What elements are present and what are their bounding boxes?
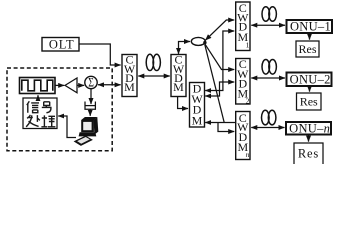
svg-text:ONU–n: ONU–n: [289, 121, 330, 135]
label ONU-1: [290, 20, 331, 34]
ONU-1 box: [287, 20, 333, 33]
wire CWDM to CWDM feeder (bidirectional): [138, 75, 169, 77]
wire ONU-n to Res: [308, 135, 310, 141]
label CWDM mux: [124, 53, 136, 95]
wire CWDM2 to ONU-2 (bidirectional): [251, 77, 285, 79]
svg-text:M: M: [192, 113, 203, 127]
CWDM mux box (left): [122, 55, 137, 97]
CWDM demux box (remote node): [171, 55, 186, 97]
wire splitter to CWDMn (upper): [205, 45, 224, 123]
label CWDM2: [237, 57, 249, 105]
wire detector to computer: [89, 109, 91, 116]
CWDM1 box (right top): [236, 2, 250, 51]
svg-text:Σ: Σ: [88, 77, 94, 90]
modulator triangle: [65, 78, 77, 93]
wire signal-processing to pulse generator: [37, 95, 39, 98]
wire circulator to CWDM (bidirectional): [98, 84, 121, 86]
svg-text:M: M: [124, 80, 135, 94]
label Res 1: [299, 42, 317, 56]
circulator: [85, 76, 97, 90]
svg-text:Res: Res: [300, 95, 318, 109]
label Res 3: [298, 146, 319, 160]
drop fiber coil 3: [262, 110, 276, 125]
wire circulator down to detector: [90, 89, 92, 104]
Res box 3: [294, 143, 323, 165]
splitter ellipse: [191, 37, 206, 45]
label CWDM demux: [173, 53, 185, 95]
svg-text:Res: Res: [299, 42, 317, 56]
svg-text:ONU–2: ONU–2: [290, 72, 331, 86]
wire CWDM1 to ONU-1 (bidirectional): [251, 24, 285, 26]
DWDM box: [190, 83, 205, 128]
label OLT: [49, 37, 75, 51]
CWDMn box (right bottom): [236, 112, 250, 160]
wire splitter to CWDM1 (upper): [205, 20, 234, 40]
label 信号 (signal) hand-drawn strokes: [27, 101, 52, 113]
label CWDM1: [237, 1, 249, 50]
label CWDMn: [237, 111, 249, 159]
wire pulse generator to modulator: [55, 84, 64, 86]
wire OLT to CWDM: [79, 44, 121, 65]
wire DWDM to CWDM1 (lower): [205, 31, 234, 91]
wire computer to signal processing: [58, 116, 76, 138]
label ONU-2: [290, 72, 331, 86]
square wave: [22, 80, 53, 91]
svg-text:ONU–1: ONU–1: [290, 20, 331, 34]
wire CWDM demux to DWDM: [178, 97, 188, 109]
wire ONU-1 to Res: [309, 34, 311, 40]
svg-text:OLT: OLT: [49, 37, 75, 51]
wire CWDMn to ONU-n (bidirectional): [251, 127, 284, 129]
svg-text:2: 2: [246, 96, 250, 105]
svg-text:n: n: [246, 150, 250, 159]
Res box 2: [297, 93, 322, 110]
label ONU-n: [289, 121, 330, 135]
label Res 2: [300, 95, 318, 109]
dashed monitoring-module box: [7, 68, 112, 151]
svg-text:1: 1: [246, 41, 250, 50]
wire DWDM to CWDM2 (lower): [205, 82, 234, 96]
ONU-n box: [286, 122, 331, 135]
Res box 1: [296, 41, 319, 57]
pulse generator box: [20, 78, 56, 94]
signal processing box: [23, 98, 57, 129]
photodetector: [85, 102, 95, 110]
wire CWDM demux up to splitter: [179, 42, 191, 54]
wire ONU-2 to Res: [309, 87, 311, 92]
wire DWDM to CWDMn (lower): [205, 123, 235, 132]
CWDM2 box (right middle): [236, 59, 250, 105]
drop fiber coil 1: [262, 7, 276, 22]
wire splitter to CWDM2 (upper): [205, 44, 234, 70]
svg-text:M: M: [173, 80, 184, 94]
drop fiber coil 2: [262, 60, 276, 75]
ONU-2 box: [287, 73, 332, 87]
wire modulator to circulator: [77, 84, 84, 86]
feeder fiber coil: [146, 54, 160, 70]
computer: [74, 117, 99, 146]
OLT box: [42, 38, 79, 52]
svg-text:Res: Res: [298, 146, 319, 160]
label 处理 (processing) hand-drawn strokes: [26, 115, 55, 127]
label DWDM: [191, 82, 203, 128]
